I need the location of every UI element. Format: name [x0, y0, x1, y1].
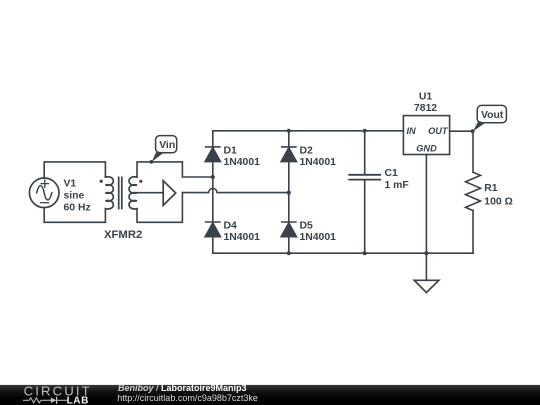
secondary coil: [129, 177, 137, 209]
svg-text:XFMR2: XFMR2: [104, 229, 142, 241]
C1 value label: [385, 168, 409, 191]
right bridge branch: [288, 131, 290, 253]
svg-text:LAB: LAB: [67, 396, 89, 405]
svg-text:Beniboy / Laboratoire9Manip3: Beniboy / Laboratoire9Manip3: [118, 383, 247, 393]
svg-text:7812: 7812: [414, 103, 437, 114]
svg-text:sine: sine: [64, 191, 85, 202]
svg-text:D2: D2: [300, 145, 314, 156]
capacitor C1: [349, 131, 380, 253]
svg-text:V1: V1: [64, 179, 77, 190]
svg-text:U1: U1: [419, 92, 433, 103]
diode D4: [205, 222, 221, 237]
svg-text:60 Hz: 60 Hz: [64, 202, 91, 213]
wire secondary center tap: [137, 192, 163, 194]
junction bottom rail / C1: [363, 251, 367, 255]
voltage source V1: [29, 178, 59, 208]
svg-text:http://circuitlab.com/c9a98b7c: http://circuitlab.com/c9a98b7czt3ke: [117, 393, 258, 403]
junction bottom rail / GND pin: [424, 251, 428, 255]
diode D2: [281, 147, 297, 162]
V1 value label: [64, 179, 91, 214]
svg-text:IN: IN: [407, 126, 417, 136]
D1 label: [224, 145, 261, 168]
svg-text:GND: GND: [416, 144, 437, 154]
diode D5: [281, 222, 297, 237]
junction tap wire / right branch: [287, 191, 291, 195]
wire V1 top to primary: [44, 162, 105, 178]
bottom rail: [213, 252, 473, 254]
wire U1 GND to bottom rail: [425, 155, 427, 254]
svg-text:D1: D1: [224, 145, 238, 156]
svg-text:1N4001: 1N4001: [300, 232, 337, 243]
D4 label: [224, 220, 261, 243]
svg-text:100 Ω: 100 Ω: [484, 196, 513, 207]
resistor R1: [466, 131, 481, 253]
D2 label: [300, 145, 337, 168]
net flag Vin: [149, 136, 176, 164]
primary polarity dot: [100, 180, 103, 183]
svg-text:R1: R1: [484, 183, 498, 194]
svg-text:1N4001: 1N4001: [224, 157, 261, 168]
svg-text:OUT: OUT: [428, 126, 449, 136]
footer text: [117, 383, 258, 403]
svg-text:C1: C1: [385, 168, 399, 179]
left bridge branch: [212, 131, 214, 253]
CIRCUIT LAB logo: [24, 384, 92, 405]
top rail: [213, 130, 404, 132]
svg-text:D4: D4: [224, 220, 238, 231]
junction bottom rail / D5: [287, 251, 291, 255]
D5 label: [300, 220, 337, 243]
svg-text:1N4001: 1N4001: [300, 157, 337, 168]
junction top rail / C1: [363, 129, 367, 133]
arrow marker on secondary tap: [163, 181, 176, 206]
primary coil: [105, 177, 113, 209]
wire V1 bottom to primary: [44, 208, 105, 223]
ground: [414, 253, 439, 292]
wire tap node to bridge right branch (hop over left branch): [182, 188, 288, 192]
svg-text:Vout: Vout: [481, 110, 504, 121]
svg-text:1N4001: 1N4001: [224, 232, 261, 243]
junction top rail / D2: [287, 129, 291, 133]
transformer XFMR2: [100, 177, 143, 209]
wire U1 OUT to node: [450, 130, 473, 132]
svg-text:D5: D5: [300, 220, 314, 231]
regulator U1: [403, 116, 449, 155]
R1 value label: [484, 183, 513, 208]
net flag Vout: [471, 105, 507, 133]
svg-text:1 mF: 1 mF: [385, 180, 409, 191]
secondary polarity dot: [139, 180, 142, 183]
svg-text:Vin: Vin: [159, 140, 175, 151]
wire secondary top to bridge: [137, 162, 213, 177]
U1 label: [414, 92, 437, 115]
core: [119, 177, 122, 208]
wire secondary bottom loop: [137, 193, 182, 223]
diode D1: [205, 147, 221, 162]
junction secondary-top / left branch: [211, 175, 215, 179]
